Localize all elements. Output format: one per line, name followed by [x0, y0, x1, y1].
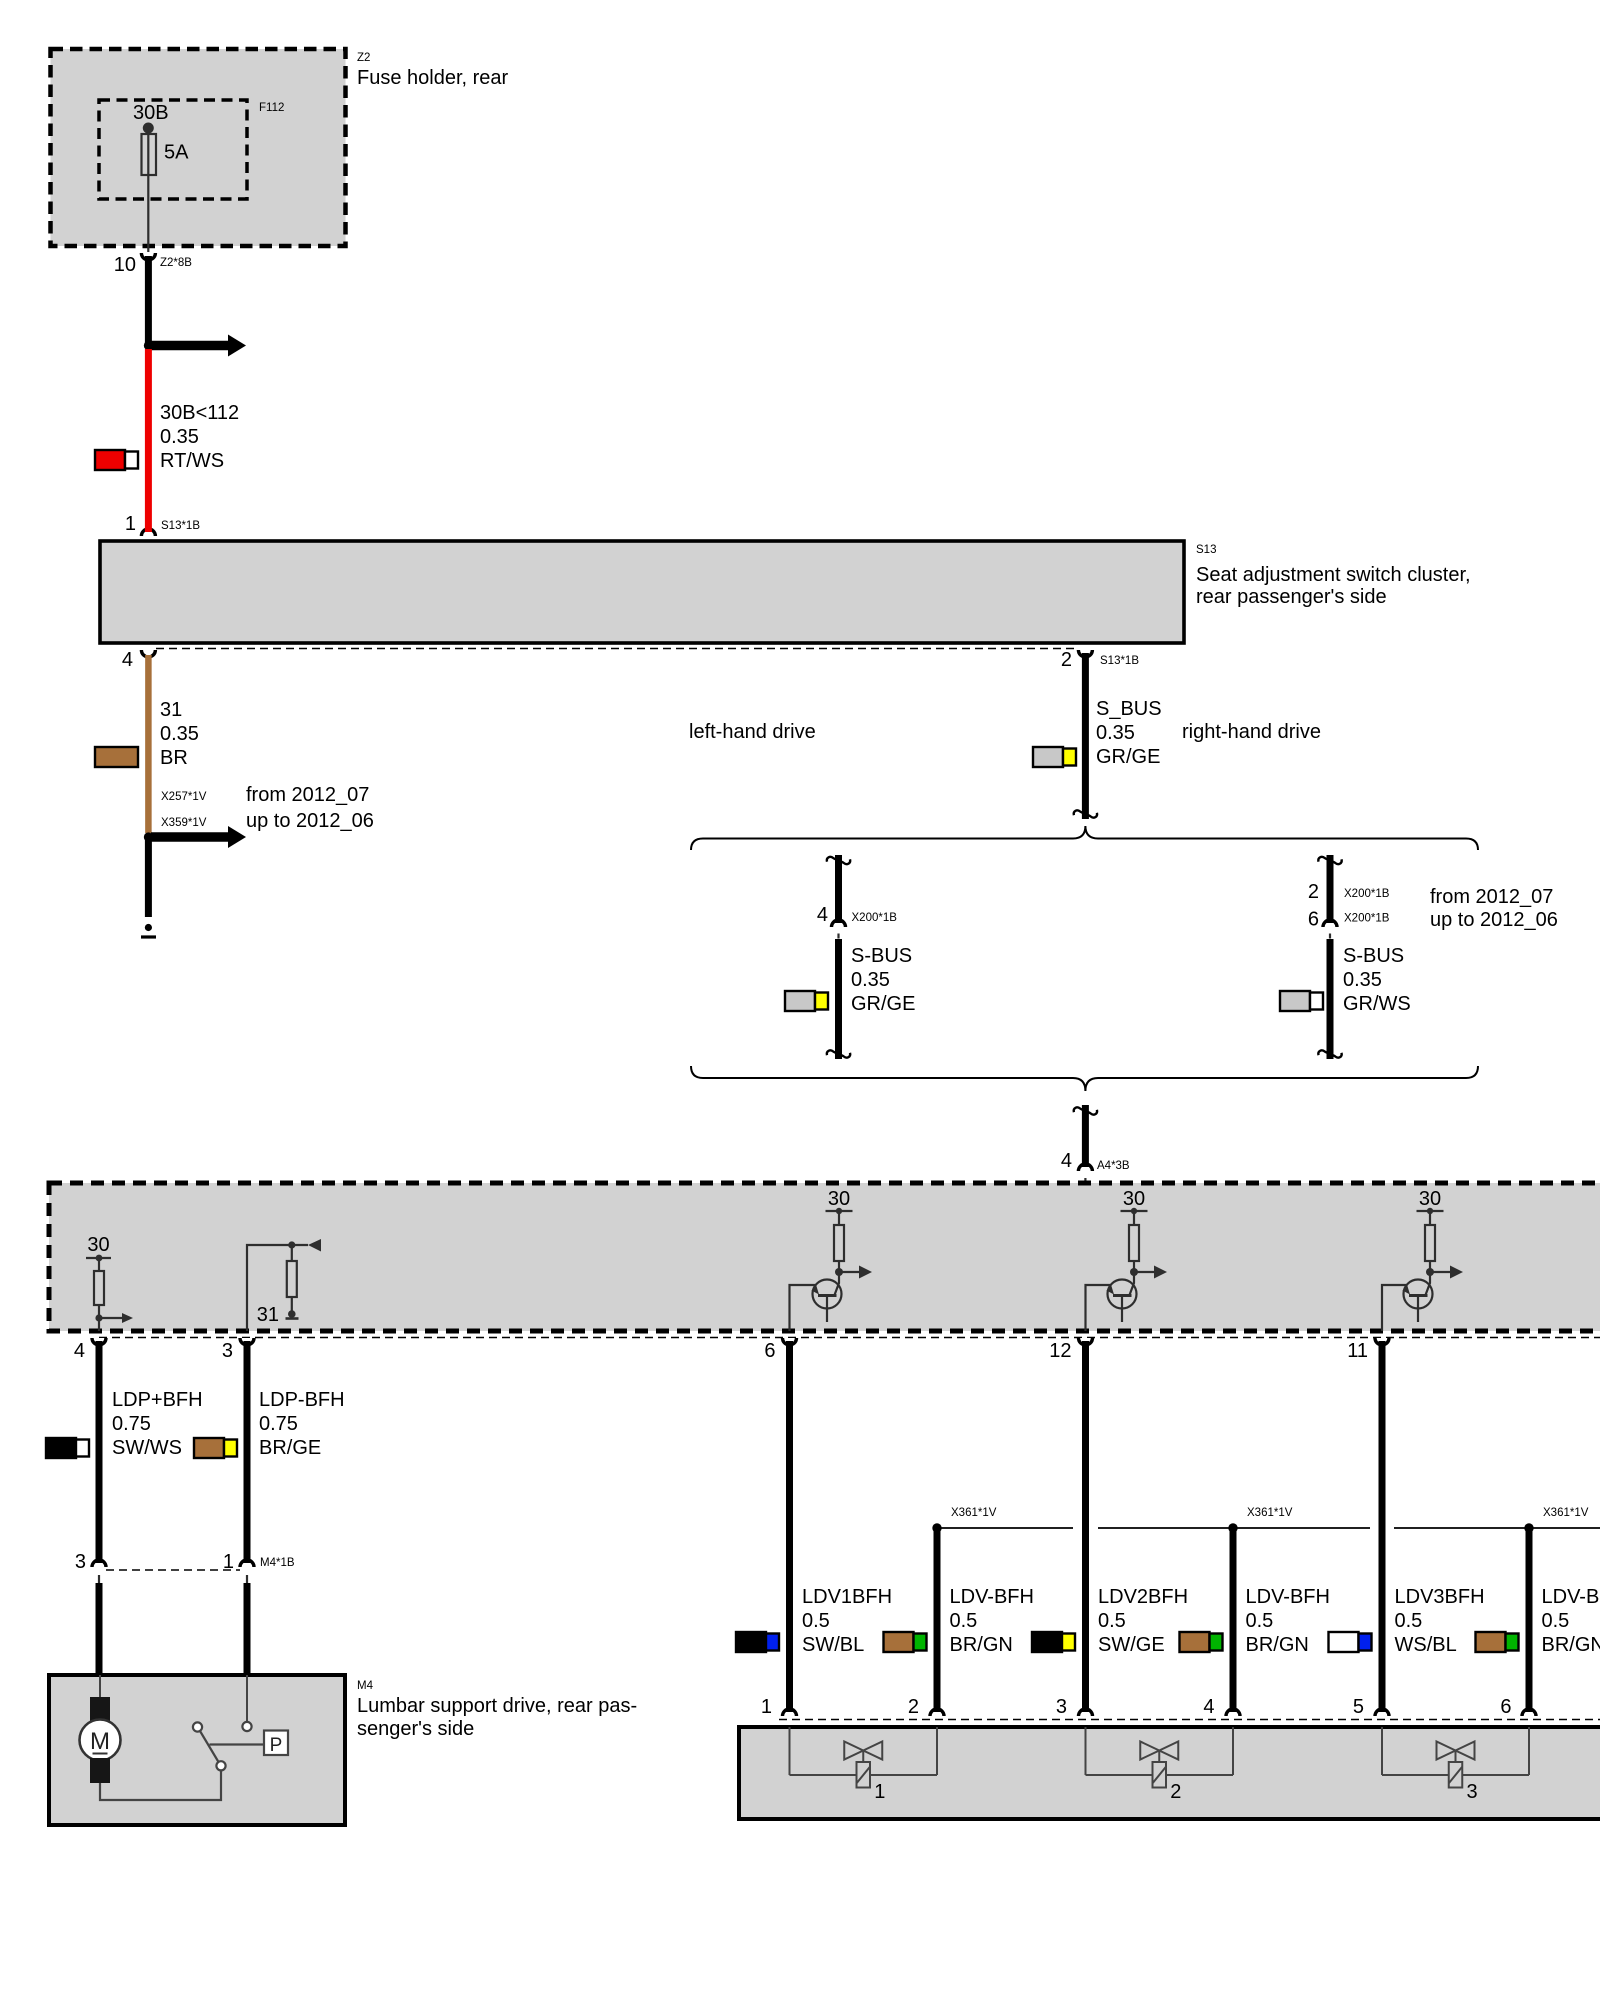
node 30 (supply)	[86, 1234, 111, 1261]
svg-text:0.75: 0.75	[259, 1413, 298, 1435]
svg-text:4: 4	[817, 904, 828, 926]
transistor Q2	[1086, 1272, 1137, 1331]
pin 1 connector (valve block)	[761, 1696, 797, 1718]
svg-text:4: 4	[74, 1340, 85, 1362]
svg-text:Z2*8B: Z2*8B	[160, 257, 192, 269]
svg-text:X359*1V: X359*1V	[161, 817, 207, 829]
svg-text:BR: BR	[160, 747, 188, 769]
motor M	[80, 1675, 121, 1783]
node 30 (supply, stage 3)	[1417, 1188, 1444, 1214]
svg-text:0.35: 0.35	[851, 969, 890, 991]
wire colour swatch BR/GN	[1476, 1632, 1519, 1652]
svg-text:LDV-BFH: LDV-BFH	[950, 1586, 1034, 1608]
junction	[1130, 1268, 1138, 1276]
node 30 (supply, stage 2)	[1121, 1188, 1148, 1214]
wire LDV3BFH 0.5 WS/BL	[1382, 1341, 1485, 1712]
signal arrow	[1430, 1266, 1463, 1279]
pin 3 connector (module A4)	[222, 1338, 254, 1362]
svg-text:6: 6	[1500, 1696, 1511, 1718]
wire colour swatch GR/GE	[1033, 747, 1076, 767]
svg-text:SW/WS: SW/WS	[112, 1437, 182, 1459]
svg-text:4: 4	[1203, 1696, 1214, 1718]
svg-text:SW/GE: SW/GE	[1098, 1634, 1165, 1656]
svg-text:GR/WS: GR/WS	[1343, 993, 1411, 1015]
pin 6 connector (valve block)	[1500, 1696, 1536, 1718]
svg-text:S-BUS: S-BUS	[1343, 945, 1404, 967]
wire colour swatch SW/GE	[1032, 1632, 1075, 1652]
labels S-BUS 0.35 GR/GE	[851, 945, 915, 1015]
svg-text:rear passenger's side: rear passenger's side	[1196, 586, 1387, 608]
svg-text:left-hand drive: left-hand drive	[689, 721, 816, 743]
svg-text:2: 2	[1170, 1781, 1181, 1803]
svg-text:0.5: 0.5	[950, 1610, 978, 1632]
signal arrow	[1134, 1266, 1167, 1279]
ground 31 (internal)	[257, 1304, 299, 1326]
wire	[837, 934, 839, 1060]
control module A4 (dashed box)	[49, 1183, 1600, 1331]
svg-text:30: 30	[828, 1188, 850, 1210]
svg-text:GR/GE: GR/GE	[1096, 746, 1160, 768]
pin 2 connector S13*1B	[1061, 649, 1139, 671]
pin 4 connector A4*3B	[1061, 1150, 1130, 1183]
svg-text:2: 2	[908, 1696, 919, 1718]
wire LDV2BFH 0.5 SW/GE	[1086, 1341, 1189, 1712]
svg-text:30B: 30B	[133, 102, 169, 124]
svg-text:Z2: Z2	[357, 52, 370, 64]
switch cluster S13	[100, 541, 1471, 643]
wire LDP-BFH 0.75 BR/GE	[247, 1341, 345, 1563]
svg-text:X200*1B: X200*1B	[1344, 888, 1390, 900]
valve 3	[1382, 1727, 1529, 1803]
pin 3 connector	[75, 1551, 106, 1675]
svg-text:Fuse holder, rear: Fuse holder, rear	[357, 67, 509, 89]
svg-text:31: 31	[257, 1304, 279, 1326]
continuation arrow	[151, 826, 246, 848]
splice X361*1V junction	[932, 1507, 996, 1533]
wire LDV1BFH 0.5 SW/BL	[790, 1341, 893, 1712]
wire S-BUS (rhd) upper	[1327, 855, 1334, 923]
svg-text:30: 30	[1419, 1188, 1441, 1210]
svg-text:BR/GN: BR/GN	[1246, 1634, 1309, 1656]
wire colour swatch BR/GE	[194, 1438, 237, 1458]
svg-text:LDV1BFH: LDV1BFH	[802, 1586, 892, 1608]
wire to module A4	[1082, 1105, 1089, 1167]
svg-text:11: 11	[1347, 1340, 1368, 1362]
valve 2	[1086, 1727, 1234, 1803]
junction	[95, 1314, 102, 1321]
resistor (pull-down)	[287, 1245, 297, 1311]
svg-text:0.5: 0.5	[1246, 1610, 1274, 1632]
svg-text:10: 10	[114, 254, 136, 276]
brace (split to variants)	[691, 826, 1478, 850]
wire LDV-BFH 0.5 BR/GN	[1233, 1531, 1330, 1712]
splice labels X257*1V / X359*1V	[161, 791, 207, 829]
pin 4 connector	[122, 649, 156, 671]
pin 4 connector X200*1B	[817, 904, 897, 927]
note: from 2012_07 / up to 2012_06	[1430, 886, 1558, 931]
svg-text:up to 2012_06: up to 2012_06	[1430, 909, 1558, 931]
svg-text:0.5: 0.5	[1098, 1610, 1126, 1632]
input arrow	[308, 1239, 321, 1252]
svg-text:3: 3	[1467, 1781, 1478, 1803]
svg-text:M: M	[90, 1728, 110, 1755]
svg-text:M4*1B: M4*1B	[260, 1557, 295, 1569]
signal arrow	[839, 1266, 872, 1279]
ground (terminal 31)	[141, 924, 156, 937]
wire 30B<112 0.35 RT/WS	[148, 349, 239, 532]
svg-text:30: 30	[87, 1234, 109, 1256]
svg-text:BR/GE: BR/GE	[259, 1437, 321, 1459]
svg-text:3: 3	[222, 1340, 233, 1362]
wire LDP+BFH 0.75 SW/WS	[99, 1341, 203, 1563]
svg-text:0.35: 0.35	[160, 723, 199, 745]
brace (merge)	[691, 1066, 1478, 1091]
svg-text:5A: 5A	[164, 142, 189, 164]
svg-text:1: 1	[874, 1781, 885, 1803]
svg-text:LDP-BFH: LDP-BFH	[259, 1389, 345, 1411]
splice X361*1V junction	[1228, 1507, 1292, 1533]
wire colour swatch WS/BL	[1329, 1632, 1372, 1652]
svg-text:from 2012_07: from 2012_07	[246, 784, 369, 806]
position sensor P	[210, 1731, 289, 1757]
signal arrow	[99, 1313, 133, 1323]
svg-text:6: 6	[764, 1340, 775, 1362]
svg-text:12: 12	[1049, 1340, 1071, 1362]
svg-text:3: 3	[75, 1551, 86, 1573]
svg-text:S_BUS: S_BUS	[1096, 698, 1162, 720]
transistor Q1	[790, 1272, 842, 1331]
labels S-BUS 0.35 GR/WS	[1343, 945, 1411, 1015]
svg-text:1: 1	[125, 513, 136, 535]
splice rail X361*1V	[937, 1527, 1600, 1529]
node 30 (supply, stage 1)	[826, 1188, 853, 1214]
wire colour swatch SW/BL	[736, 1632, 779, 1652]
pin 5 connector (valve block)	[1353, 1696, 1389, 1718]
svg-text:0.5: 0.5	[1542, 1610, 1570, 1632]
wire colour swatch BR/GN	[884, 1632, 927, 1652]
wire colour swatch BR	[95, 747, 138, 767]
svg-text:6: 6	[1308, 909, 1319, 931]
resistor (collector load, stage 1)	[834, 1211, 844, 1272]
svg-text:S13*1B: S13*1B	[1100, 655, 1139, 667]
svg-text:S-BUS: S-BUS	[851, 945, 912, 967]
resistor (pull-up)	[94, 1258, 104, 1331]
fuse holder Z2 (dashed box)	[51, 49, 509, 246]
svg-text:2: 2	[1308, 881, 1319, 903]
svg-text:A4*3B: A4*3B	[1097, 1160, 1130, 1172]
svg-text:senger's side: senger's side	[357, 1718, 474, 1740]
wire colour swatch RT/WS	[95, 450, 138, 470]
svg-text:X200*1B: X200*1B	[1344, 913, 1390, 925]
svg-text:5: 5	[1353, 1696, 1364, 1718]
pin 1 connector M4*1B	[223, 1551, 295, 1675]
pin 11 connector (module A4)	[1347, 1338, 1389, 1362]
svg-text:X361*1V: X361*1V	[1247, 1507, 1293, 1519]
junction	[144, 832, 153, 841]
svg-text:0.75: 0.75	[112, 1413, 151, 1435]
svg-text:SW/BL: SW/BL	[802, 1634, 864, 1656]
pin 3 connector (valve block)	[1056, 1696, 1093, 1718]
pin 6 connector (module A4)	[764, 1338, 796, 1362]
pin 4 connector (valve block)	[1203, 1696, 1240, 1718]
wire break	[827, 857, 850, 864]
svg-text:LDV-BFH: LDV-BFH	[1246, 1586, 1330, 1608]
svg-text:4: 4	[122, 649, 133, 671]
junction	[144, 341, 153, 350]
wire break	[1074, 1107, 1097, 1114]
svg-text:RT/WS: RT/WS	[160, 450, 224, 472]
svg-text:F112: F112	[259, 102, 284, 114]
resistor (collector load, stage 2)	[1129, 1211, 1139, 1272]
pin 4 connector (module A4)	[74, 1338, 106, 1362]
wire LDV-BFH 0.5 BR/GN	[1529, 1531, 1600, 1712]
wire to ground	[145, 837, 152, 917]
fuse box F112 (inner dashed box)	[99, 100, 284, 199]
wire colour swatch SW/WS	[46, 1438, 89, 1458]
svg-text:M4: M4	[357, 1680, 374, 1692]
svg-text:Lumbar support drive, rear pas: Lumbar support drive, rear pas-	[357, 1695, 637, 1717]
svg-text:from 2012_07: from 2012_07	[1430, 886, 1553, 908]
svg-text:right-hand drive: right-hand drive	[1182, 721, 1321, 743]
svg-text:LDV-BFH: LDV-BFH	[1542, 1586, 1600, 1608]
resistor (collector load, stage 3)	[1425, 1211, 1435, 1272]
valve block (box)	[739, 1727, 1600, 1819]
svg-text:BR/GN: BR/GN	[1542, 1634, 1600, 1656]
transistor Q3	[1382, 1272, 1433, 1331]
svg-text:LDP+BFH: LDP+BFH	[112, 1389, 203, 1411]
svg-text:31: 31	[160, 699, 182, 721]
svg-text:3: 3	[1056, 1696, 1067, 1718]
svg-text:0.5: 0.5	[1395, 1610, 1423, 1632]
pins 2/6 connector X200*1B	[1308, 881, 1390, 931]
svg-text:0.35: 0.35	[1343, 969, 1382, 991]
wire (motor return)	[100, 1771, 221, 1801]
wire colour swatch BR/GN	[1180, 1632, 1223, 1652]
fuse F112 5A	[142, 128, 190, 252]
svg-text:Seat adjustment switch cluster: Seat adjustment switch cluster,	[1196, 564, 1471, 586]
pin 2 connector (valve block)	[908, 1696, 944, 1718]
switch (position contact)	[193, 1722, 226, 1770]
wire break (continuation)	[1074, 810, 1097, 817]
wire 31 0.35 BR	[148, 655, 199, 833]
splice X361*1V junction	[1524, 1507, 1588, 1533]
svg-text:1: 1	[761, 1696, 772, 1718]
svg-text:P: P	[270, 1735, 283, 1756]
wire colour swatch GR/GE	[785, 991, 828, 1011]
sense line from pin 3	[247, 1245, 308, 1331]
wire	[1329, 934, 1331, 1060]
svg-text:0.5: 0.5	[802, 1610, 830, 1632]
svg-text:0.35: 0.35	[160, 426, 199, 448]
wire colour swatch GR/WS	[1280, 991, 1323, 1011]
svg-text:X361*1V: X361*1V	[1543, 1507, 1589, 1519]
wire break	[1318, 857, 1341, 864]
node 30B	[133, 102, 169, 134]
junction	[1426, 1268, 1434, 1276]
wire break	[827, 1050, 850, 1057]
junction	[835, 1268, 843, 1276]
svg-text:30: 30	[1123, 1188, 1145, 1210]
lumbar support drive M4 (box)	[49, 1675, 637, 1825]
svg-text:LDV2BFH: LDV2BFH	[1098, 1586, 1188, 1608]
svg-text:0.35: 0.35	[1096, 722, 1135, 744]
connector line (dashed) below module	[99, 1337, 1600, 1339]
svg-text:S13*1B: S13*1B	[161, 520, 200, 532]
svg-text:30B<112: 30B<112	[160, 402, 239, 424]
pin 12 connector (module A4)	[1049, 1338, 1092, 1362]
svg-text:X361*1V: X361*1V	[951, 1507, 997, 1519]
svg-text:WS/BL: WS/BL	[1395, 1634, 1457, 1656]
junction	[288, 1241, 295, 1248]
connector line (dashed) above valve block	[779, 1719, 1600, 1721]
svg-text:BR/GN: BR/GN	[950, 1634, 1013, 1656]
pin 10 connector Z2*8B	[114, 253, 193, 276]
svg-text:4: 4	[1061, 1150, 1072, 1172]
connector line M4*1B (dashed)	[106, 1569, 240, 1571]
wire break	[1318, 1050, 1341, 1057]
wire S-BUS (lhd) upper	[835, 855, 842, 923]
valve 1	[790, 1727, 938, 1803]
svg-text:2: 2	[1061, 649, 1072, 671]
wire S_BUS 0.35 GR/GE	[1085, 653, 1161, 819]
svg-text:X257*1V: X257*1V	[161, 791, 207, 803]
note: from 2012_07 / up to 2012_06	[246, 784, 374, 832]
wire from fuse pin 10	[145, 256, 152, 345]
svg-text:GR/GE: GR/GE	[851, 993, 915, 1015]
wire LDV-BFH 0.5 BR/GN	[937, 1531, 1034, 1712]
svg-text:up to 2012_06: up to 2012_06	[246, 810, 374, 832]
svg-text:LDV3BFH: LDV3BFH	[1395, 1586, 1485, 1608]
pin 1 connector S13*1B	[125, 513, 200, 536]
svg-text:X200*1B: X200*1B	[852, 912, 898, 924]
continuation arrow (to other circuits)	[151, 335, 246, 357]
wire (from pin 1)	[242, 1675, 251, 1731]
svg-text:S13: S13	[1196, 544, 1216, 556]
connector line S13*1B (dashed)	[156, 648, 1078, 650]
